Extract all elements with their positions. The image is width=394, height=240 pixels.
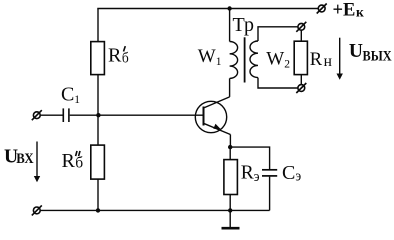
wire R'b bottom lead <box>97 75 99 146</box>
svg-text:U: U <box>349 41 363 62</box>
capacitor Cэ <box>262 170 277 176</box>
wire C1 to transistor base <box>70 114 204 116</box>
node C1 / divider junction <box>96 113 100 117</box>
wire Rn to lower terminal <box>300 75 302 85</box>
svg-text:б: б <box>75 155 83 172</box>
input terminal upper <box>32 110 42 120</box>
wire Re to bottom rail <box>229 195 231 211</box>
svg-text:э: э <box>295 168 301 185</box>
input terminal lower <box>32 205 42 215</box>
arrow U_vyx <box>337 38 343 80</box>
wire R'b top lead <box>97 9 99 42</box>
node emitter branch / bottom rail junction <box>228 208 232 212</box>
wire W2 top lead <box>258 27 298 41</box>
svg-text:R: R <box>108 44 122 66</box>
resistor Rн <box>294 41 307 74</box>
svg-text:ВЫХ: ВЫХ <box>363 47 392 63</box>
svg-text:ВХ: ВХ <box>16 151 33 167</box>
wire Ce to bottom rail <box>269 177 271 211</box>
svg-text:W: W <box>198 46 216 67</box>
resistor Rэ <box>224 160 238 195</box>
resistor R'б <box>91 42 105 75</box>
wire R''b bottom lead <box>97 179 99 210</box>
node top rail / W1 junction <box>227 6 231 10</box>
terminal +Ek <box>317 4 327 14</box>
wire emitter lead <box>229 135 231 148</box>
output terminal lower <box>296 83 306 93</box>
wire W1 top lead <box>229 9 231 42</box>
wire bottom rail <box>40 209 269 211</box>
ground <box>222 210 240 228</box>
capacitor C1 <box>63 108 69 122</box>
svg-text:2: 2 <box>284 58 290 70</box>
wire input to C1 <box>40 114 62 116</box>
svg-text:б: б <box>122 50 129 67</box>
wire terminal to Rn <box>300 30 302 41</box>
output terminal upper <box>296 22 306 32</box>
wire emitter node to Ce <box>230 147 269 169</box>
svg-text:Тр: Тр <box>233 14 254 36</box>
svg-text:R: R <box>310 50 323 70</box>
node emitter junction <box>228 145 232 149</box>
svg-text:э: э <box>254 168 260 185</box>
wire collector to W1 <box>229 78 231 97</box>
wire top rail <box>97 8 318 10</box>
transistor VT <box>195 97 230 135</box>
winding W2 <box>250 41 258 78</box>
wire W2 bottom lead <box>258 78 298 88</box>
svg-text:к: к <box>356 5 364 20</box>
winding W1 <box>230 42 238 79</box>
svg-text:R: R <box>62 150 76 172</box>
svg-text:C: C <box>282 162 295 184</box>
svg-text:C: C <box>61 83 74 105</box>
svg-text:н: н <box>324 53 332 70</box>
svg-text:R: R <box>241 162 254 183</box>
transformer core <box>244 37 246 82</box>
arrow U_vx <box>34 142 40 183</box>
svg-text:W: W <box>266 48 284 69</box>
resistor R''б <box>91 145 105 179</box>
wire emitter node to Re <box>229 147 231 160</box>
node R''b / bottom rail junction <box>96 208 100 212</box>
svg-text:1: 1 <box>216 56 222 68</box>
svg-text:+E: +E <box>333 1 356 21</box>
svg-text:1: 1 <box>74 94 80 106</box>
